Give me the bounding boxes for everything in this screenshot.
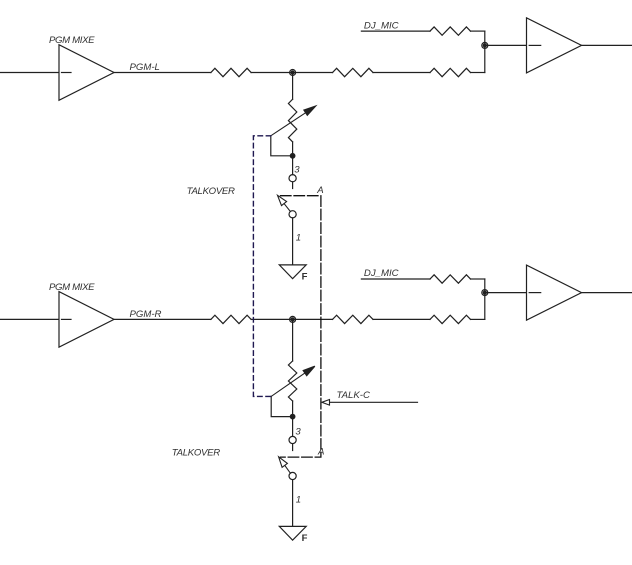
svg-text:3: 3 [294, 165, 300, 176]
svg-text:TALKOVER: TALKOVER [187, 186, 235, 197]
svg-text:TALKOVER: TALKOVER [172, 448, 220, 459]
svg-text:PGM-L: PGM-L [130, 62, 160, 73]
svg-text:3: 3 [295, 427, 301, 438]
svg-text:PGM-R: PGM-R [130, 309, 162, 320]
svg-text:DJ_MIC: DJ_MIC [364, 20, 399, 31]
svg-text:PGM MIXE: PGM MIXE [49, 35, 95, 46]
svg-text:A: A [317, 447, 324, 458]
svg-text:F: F [302, 533, 308, 544]
svg-text:A: A [316, 185, 323, 196]
svg-text:DJ_MIC: DJ_MIC [364, 268, 399, 279]
svg-text:1: 1 [296, 233, 301, 244]
svg-text:1: 1 [296, 495, 301, 506]
svg-text:TALK-C: TALK-C [337, 390, 370, 401]
svg-text:F: F [302, 272, 308, 283]
svg-text:PGM MIXE: PGM MIXE [49, 282, 95, 293]
